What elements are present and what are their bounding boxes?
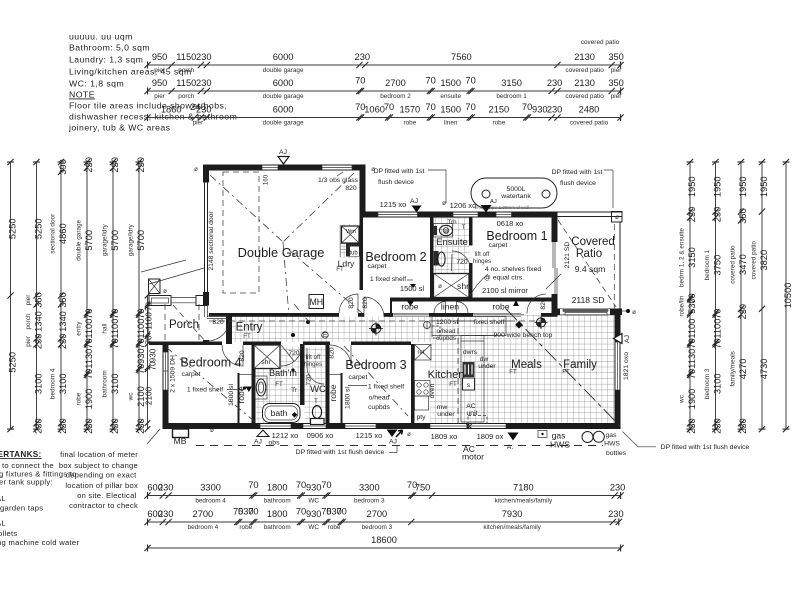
svg-text:AJ: AJ xyxy=(624,335,631,343)
wall: bed3 / kitchen xyxy=(411,344,415,423)
svg-text:NOTE: NOTE xyxy=(69,90,95,100)
door wc 720 xyxy=(307,348,324,384)
svg-text:MB: MB xyxy=(174,436,187,446)
svg-text:1800: 1800 xyxy=(267,483,288,493)
svg-text:70: 70 xyxy=(687,369,697,379)
svg-text:70: 70 xyxy=(110,338,120,348)
svg-text:Living/kitchen areas; 45 sqm: Living/kitchen areas; 45 sqm xyxy=(69,67,192,77)
svg-text:7180: 7180 xyxy=(513,483,534,493)
kitchen oven under xyxy=(415,396,429,410)
svg-text:2 x 1509 DH: 2 x 1509 DH xyxy=(170,355,177,393)
svg-text:DP fitted with 1st flush devic: DP fitted with 1st flush device xyxy=(661,444,750,451)
svg-text:3100: 3100 xyxy=(712,373,722,394)
svg-text:820: 820 xyxy=(345,185,357,192)
svg-text:820: 820 xyxy=(540,298,547,310)
svg-text:dwrs: dwrs xyxy=(463,349,478,356)
svg-text:1340: 1340 xyxy=(58,311,68,332)
wall: bottom xyxy=(163,423,621,429)
svg-text:Wm: Wm xyxy=(346,229,356,235)
svg-text:70: 70 xyxy=(248,507,258,517)
svg-text:3100: 3100 xyxy=(58,373,68,394)
svg-text:2148 sectional door: 2148 sectional door xyxy=(208,211,215,271)
svg-text:930: 930 xyxy=(136,348,146,364)
patio corner pier xyxy=(612,212,623,223)
door ensuite 720 xyxy=(452,251,471,271)
kitchen fridge space xyxy=(415,345,432,361)
svg-text:ø: ø xyxy=(615,214,619,221)
notes text block top-left xyxy=(68,32,237,133)
svg-text:3820: 3820 xyxy=(759,250,769,271)
svg-text:o/head: o/head xyxy=(369,395,390,402)
svg-text:5250: 5250 xyxy=(33,218,43,239)
svg-text:covered patio: covered patio xyxy=(570,119,609,126)
svg-text:2100 sl mirror: 2100 sl mirror xyxy=(482,286,528,295)
svg-text:ø: ø xyxy=(371,166,375,173)
svg-text:DP fitted with 1st: DP fitted with 1st xyxy=(552,169,603,176)
svg-text:double garage: double garage xyxy=(263,93,304,100)
svg-text:4730: 4730 xyxy=(759,359,769,380)
svg-text:4270: 4270 xyxy=(738,359,748,380)
svg-text:5700: 5700 xyxy=(84,230,94,251)
svg-text:70: 70 xyxy=(426,102,436,112)
wall: bath / wc xyxy=(300,344,305,405)
svg-text:0618 xo: 0618 xo xyxy=(497,219,524,228)
ensuite shower xyxy=(434,274,470,298)
svg-text:70: 70 xyxy=(84,369,94,379)
svg-text:covered patio: covered patio xyxy=(581,39,620,46)
robe slider slot bed2 xyxy=(393,314,429,317)
svg-text:o/head: o/head xyxy=(437,328,456,335)
wc toilet xyxy=(312,406,321,419)
svg-text:ø: ø xyxy=(163,288,167,295)
svg-text:fixed shelf: fixed shelf xyxy=(474,319,505,326)
svg-text:ø: ø xyxy=(632,309,636,316)
svg-text:bedroom 3: bedroom 3 xyxy=(704,368,711,399)
wall: bedroom 4 left xyxy=(163,344,169,429)
wall stub entry/bed4 xyxy=(226,317,232,345)
svg-text:pier: pier xyxy=(193,119,205,126)
svg-text:Bedroom 1: Bedroom 1 xyxy=(486,229,547,243)
svg-text:230: 230 xyxy=(58,334,68,350)
door bath 720 xyxy=(281,345,302,366)
wall: bed4 robe partition xyxy=(238,373,240,423)
svg-text:FT: FT xyxy=(509,369,517,376)
svg-text:ng machine cold water: ng machine cold water xyxy=(0,538,79,547)
svg-text:2700: 2700 xyxy=(367,509,388,519)
svg-text:930: 930 xyxy=(306,509,322,519)
svg-text:70: 70 xyxy=(712,309,722,319)
svg-text:230: 230 xyxy=(33,334,43,350)
svg-text:160: 160 xyxy=(263,174,270,185)
svg-text:ø: ø xyxy=(442,200,446,207)
svg-text:AL: AL xyxy=(0,494,6,503)
svg-text:double garage: double garage xyxy=(263,119,304,126)
bath tub xyxy=(263,404,301,423)
svg-text:Double Garage: Double Garage xyxy=(238,245,325,260)
svg-text:1130: 1130 xyxy=(687,349,697,369)
svg-text:18600: 18600 xyxy=(371,535,397,545)
wall: top wall over bedroom2/ensuite/bedroom1 xyxy=(366,212,558,218)
porch pier and beam xyxy=(149,296,171,306)
svg-text:robe: robe xyxy=(328,524,341,531)
kitchen bench top band xyxy=(432,317,506,336)
svg-text:DP fitted with 1st: DP fitted with 1st xyxy=(374,168,425,175)
dimension chain bottom row 1 xyxy=(144,480,625,504)
svg-text:820: 820 xyxy=(212,319,224,326)
svg-text:bottles: bottles xyxy=(606,450,627,457)
svg-text:AJ: AJ xyxy=(410,198,418,205)
svg-text:750: 750 xyxy=(415,483,431,493)
svg-text:230: 230 xyxy=(610,483,626,493)
misc dots xyxy=(291,333,295,337)
svg-text:A.: A. xyxy=(507,444,514,451)
wall: garage top xyxy=(203,165,366,171)
svg-text:1809 xo: 1809 xo xyxy=(431,432,458,441)
svg-text:1/3 obs glass: 1/3 obs glass xyxy=(318,177,359,184)
svg-text:5000L: 5000L xyxy=(507,186,526,193)
dimension chain left L3 xyxy=(50,159,68,434)
svg-text:joinery, tub & WC areas: joinery, tub & WC areas xyxy=(68,123,171,133)
porch corner pier with X xyxy=(149,279,161,294)
svg-text:3300: 3300 xyxy=(200,483,221,493)
sectional door dashed track xyxy=(223,172,259,293)
svg-text:230: 230 xyxy=(196,105,212,115)
svg-text:under: under xyxy=(478,363,496,370)
svg-text:3100: 3100 xyxy=(110,373,120,394)
svg-text:robe: robe xyxy=(239,524,252,531)
door bed3 820 xyxy=(330,345,351,366)
svg-text:70: 70 xyxy=(84,338,94,348)
svg-text:1200 sl: 1200 sl xyxy=(436,319,458,326)
svg-text:bedrm 1, 2 & ensuite: bedrm 1, 2 & ensuite xyxy=(679,228,686,287)
svg-text:porch: porch xyxy=(178,67,194,74)
svg-text:70: 70 xyxy=(136,364,146,374)
svg-text:70: 70 xyxy=(465,102,475,112)
svg-text:kitchen/meals/family: kitchen/meals/family xyxy=(495,497,553,504)
window 1212 xo obs bathroom xyxy=(260,424,291,428)
svg-text:carpet: carpet xyxy=(368,263,387,270)
svg-text:530: 530 xyxy=(687,298,697,314)
svg-text:Entry: Entry xyxy=(236,322,263,334)
svg-text:720: 720 xyxy=(306,374,313,386)
svg-text:WC: WC xyxy=(308,497,319,504)
svg-text:hinges: hinges xyxy=(304,361,322,368)
dimension chain bottom row 2 xyxy=(144,507,623,531)
svg-text:1500: 1500 xyxy=(440,78,461,88)
svg-text:contractor to check: contractor to check xyxy=(69,501,138,510)
window 160 in garage top wall xyxy=(262,166,278,170)
svg-text:covered patio: covered patio xyxy=(730,245,737,284)
svg-text:shr: shr xyxy=(457,281,469,291)
svg-text:box subject to change: box subject to change xyxy=(59,461,138,470)
bathroom vanity basin xyxy=(255,376,267,399)
svg-text:930: 930 xyxy=(532,105,548,115)
svg-text:robe: robe xyxy=(493,119,506,126)
svg-text:70: 70 xyxy=(337,507,347,517)
svg-text:robe: robe xyxy=(328,384,338,401)
svg-text:4860: 4860 xyxy=(58,223,68,244)
wall: bed2 / ensuite xyxy=(430,218,434,300)
porch roof hip line xyxy=(149,268,204,284)
svg-text:pty: pty xyxy=(416,414,426,421)
svg-text:930: 930 xyxy=(306,483,322,493)
svg-text:1821 oxo: 1821 oxo xyxy=(623,352,630,380)
svg-text:1950: 1950 xyxy=(712,176,722,197)
svg-text:garage/ldry: garage/ldry xyxy=(128,224,135,257)
svg-text:930: 930 xyxy=(149,348,158,362)
svg-text:230: 230 xyxy=(136,418,146,434)
svg-text:70: 70 xyxy=(687,338,697,348)
svg-text:T: T xyxy=(462,224,466,231)
svg-text:70: 70 xyxy=(522,102,532,112)
front door arc (entry) xyxy=(207,319,230,342)
svg-text:final location of meter: final location of meter xyxy=(60,450,138,459)
svg-text:covered patio: covered patio xyxy=(751,241,758,280)
svg-text:bedroom 4: bedroom 4 xyxy=(195,497,226,504)
wall: garage / bed2 xyxy=(360,218,364,291)
svg-text:1950: 1950 xyxy=(738,176,748,197)
svg-text:230: 230 xyxy=(712,418,722,434)
svg-text:obs: obs xyxy=(269,440,281,447)
svg-text:70: 70 xyxy=(712,338,722,348)
svg-text:Trh: Trh xyxy=(447,219,457,226)
svg-text:WATERTANKS:: WATERTANKS: xyxy=(0,450,42,459)
svg-text:820: 820 xyxy=(362,297,369,309)
svg-text:1340: 1340 xyxy=(33,311,43,332)
dimension chain left L7 inner xyxy=(145,293,158,432)
svg-text:1 fixed shelf: 1 fixed shelf xyxy=(187,387,223,394)
svg-text:1900: 1900 xyxy=(687,389,697,410)
svg-text:1100: 1100 xyxy=(110,319,120,339)
svg-text:depending on exact: depending on exact xyxy=(66,471,137,480)
5000L water tank xyxy=(471,178,557,208)
door bed4 820 xyxy=(222,345,243,366)
svg-text:Bathroom: 5,0 sqm: Bathroom: 5,0 sqm xyxy=(69,43,150,53)
svg-text:ø: ø xyxy=(407,431,411,438)
svg-text:2700: 2700 xyxy=(385,78,406,88)
svg-text:350: 350 xyxy=(58,292,68,308)
ceiling symbol hall xyxy=(369,322,383,336)
dimension chain right R2 xyxy=(704,159,722,434)
window 1809 xo xyxy=(430,424,467,428)
svg-text:3470: 3470 xyxy=(738,254,748,275)
dimension chain left L6 xyxy=(128,157,146,434)
svg-text:ø: ø xyxy=(210,427,214,434)
svg-text:covered patio: covered patio xyxy=(565,67,604,74)
svg-text:AC: AC xyxy=(466,403,476,410)
svg-text:6000: 6000 xyxy=(273,78,294,88)
svg-text:pier: pier xyxy=(25,294,32,306)
svg-text:Bedroom 4: Bedroom 4 xyxy=(180,356,241,370)
svg-text:1 fixed shelf: 1 fixed shelf xyxy=(368,384,404,391)
svg-text:flush device: flush device xyxy=(378,179,414,186)
bathroom tiled floor xyxy=(256,347,300,424)
svg-text:s: s xyxy=(467,382,471,389)
wall: entry left / front door jamb xyxy=(203,340,209,345)
roof ridge garage xyxy=(283,242,289,316)
svg-text:pier: pier xyxy=(154,67,166,74)
window 1215 xo bedroom 2 xyxy=(378,213,418,217)
svg-text:1215 xo: 1215 xo xyxy=(380,200,407,209)
svg-text:flush device: flush device xyxy=(560,180,596,187)
roof hip garage NW xyxy=(210,175,283,242)
roof diagonal bedroom 3 xyxy=(344,346,408,416)
svg-text:350: 350 xyxy=(608,78,624,88)
svg-text:carpet: carpet xyxy=(349,374,368,381)
svg-text:1809 ox: 1809 ox xyxy=(477,432,504,441)
porch left slab edge xyxy=(148,282,150,342)
svg-text:1500 sl: 1500 sl xyxy=(400,284,425,293)
svg-text:Laundry: 1,3 sqm: Laundry: 1,3 sqm xyxy=(69,55,143,65)
svg-text:WC: 1,8 sqm: WC: 1,8 sqm xyxy=(69,79,124,89)
svg-text:HWS: HWS xyxy=(604,441,620,448)
svg-text:230: 230 xyxy=(158,483,174,493)
dimension chain top row 3 xyxy=(144,102,623,126)
svg-text:E: E xyxy=(323,332,327,339)
svg-text:MH: MH xyxy=(309,297,323,307)
svg-text:9.4 sqm: 9.4 sqm xyxy=(575,264,606,274)
svg-text:pier: pier xyxy=(611,67,623,74)
roof dashed vertical kitchen xyxy=(457,318,459,424)
svg-text:1100: 1100 xyxy=(687,319,697,339)
svg-text:ensuite: ensuite xyxy=(440,93,461,100)
dimension chain right R5 xyxy=(783,159,793,432)
svg-text:720: 720 xyxy=(288,350,300,357)
dimension chain bottom row 3 xyxy=(144,535,623,551)
window 1206 xo ensuite xyxy=(453,213,478,217)
dimension chain left L5 xyxy=(102,157,120,434)
svg-text:er tank supply:: er tank supply: xyxy=(0,478,53,487)
wall: bedroom1 / patio with 2121 SD xyxy=(552,218,558,243)
svg-text:3750: 3750 xyxy=(712,255,722,276)
svg-text:oven: oven xyxy=(429,383,436,398)
door bedroom 2 820 xyxy=(364,297,384,317)
svg-text:1900: 1900 xyxy=(84,389,94,410)
svg-text:bedroom 4: bedroom 4 xyxy=(188,524,219,531)
svg-text:1800: 1800 xyxy=(267,509,288,519)
svg-text:1800 sl: 1800 sl xyxy=(345,387,352,409)
svg-text:Covered: Covered xyxy=(571,236,614,248)
svg-text:dishwasher recess, kitchen & b: dishwasher recess, kitchen & bathroom xyxy=(69,112,237,122)
svg-text:w: w xyxy=(443,228,449,235)
svg-text:1860: 1860 xyxy=(161,105,182,115)
svg-text:6000: 6000 xyxy=(273,52,294,62)
svg-text:bathroom: bathroom xyxy=(102,370,109,397)
svg-text:porch: porch xyxy=(25,313,32,329)
svg-text:1800 sl: 1800 sl xyxy=(228,384,235,406)
svg-text:carpet: carpet xyxy=(182,371,201,378)
mullion mark between 1809 windows xyxy=(466,424,472,429)
svg-text:bath: bath xyxy=(271,408,288,418)
svg-text:230: 230 xyxy=(196,52,212,62)
svg-text:230: 230 xyxy=(136,157,146,173)
svg-text:location of pillar box: location of pillar box xyxy=(65,481,138,490)
wall: robe/linen back (bed1 bottom) xyxy=(390,298,558,302)
roof hip garage SE xyxy=(289,250,362,313)
svg-text:230: 230 xyxy=(110,418,120,434)
roof diagonal bedroom 4 xyxy=(166,347,260,426)
svg-text:350: 350 xyxy=(33,292,43,308)
dimension chain left L1 xyxy=(7,159,17,432)
svg-text:230: 230 xyxy=(608,509,624,519)
svg-text:820: 820 xyxy=(329,347,336,359)
svg-text:mw: mw xyxy=(437,404,448,411)
svg-text:6000: 6000 xyxy=(273,105,294,115)
svg-text:bathroom: bathroom xyxy=(264,524,291,531)
svg-text:4 no. shelves fixed: 4 no. shelves fixed xyxy=(485,266,542,273)
entry and hall tiled floor xyxy=(232,317,432,343)
svg-text:230: 230 xyxy=(547,105,563,115)
svg-text:robe: robe xyxy=(492,302,509,312)
svg-text:230: 230 xyxy=(196,78,212,88)
svg-text:5700: 5700 xyxy=(136,230,146,251)
svg-text:lift off: lift off xyxy=(475,251,490,258)
svg-text:2130: 2130 xyxy=(574,78,595,88)
wall: family right xyxy=(615,315,621,429)
svg-text:hall: hall xyxy=(102,324,109,334)
ensuite tiled floor xyxy=(433,218,470,298)
svg-text:covered patio: covered patio xyxy=(565,93,604,100)
svg-text:family/meals: family/meals xyxy=(730,351,737,387)
svg-text:2100: 2100 xyxy=(145,386,154,405)
linen double doors xyxy=(434,302,468,314)
svg-text:wc: wc xyxy=(679,394,686,404)
svg-text:gas: gas xyxy=(606,432,618,439)
wall: patio bottom with 2118 SD xyxy=(552,309,623,316)
svg-text:robe/lin: robe/lin xyxy=(679,295,686,316)
svg-text:5250: 5250 xyxy=(7,352,17,373)
window 1/3 obs glass 820 in garage top wall xyxy=(322,166,352,170)
svg-text:1100: 1100 xyxy=(145,312,154,330)
svg-text:Kitchen: Kitchen xyxy=(428,369,465,381)
svg-text:bedroom 3: bedroom 3 xyxy=(354,497,385,504)
svg-text:bedroom 4: bedroom 4 xyxy=(50,368,57,399)
svg-text:under: under xyxy=(437,411,455,418)
ensuite toilet xyxy=(434,251,439,266)
svg-text:WC: WC xyxy=(308,524,319,531)
svg-text:3150: 3150 xyxy=(501,78,522,88)
svg-text:@ equal ctrs.: @ equal ctrs. xyxy=(484,275,524,282)
svg-text:820: 820 xyxy=(239,350,246,362)
wall: porch / bed4 top band xyxy=(149,342,222,346)
svg-text:kitchen/meals/family: kitchen/meals/family xyxy=(483,524,541,531)
svg-text:cupbds: cupbds xyxy=(368,404,391,411)
door bedroom 1 820 xyxy=(527,294,546,314)
svg-text:720: 720 xyxy=(456,259,468,266)
wall: bath / bed4robe xyxy=(252,344,256,423)
svg-text:T: T xyxy=(314,398,318,405)
svg-text:1950: 1950 xyxy=(687,176,697,197)
svg-text:70: 70 xyxy=(384,102,394,112)
dimension chain right R4 xyxy=(751,159,769,432)
svg-text:cupbds: cupbds xyxy=(436,335,456,342)
svg-text:AJ: AJ xyxy=(389,439,397,446)
window 1809 ox xyxy=(469,424,506,428)
wall: garage left with sectional door xyxy=(203,165,209,183)
svg-text:unit: unit xyxy=(467,410,478,417)
svg-text:1130: 1130 xyxy=(84,349,94,369)
door garage-hall 820 xyxy=(339,294,358,313)
svg-text:900 wide bench top: 900 wide bench top xyxy=(494,332,553,339)
kitchen cooktop xyxy=(415,381,431,397)
window 0618 xo bedroom 1 xyxy=(496,213,512,217)
svg-text:1150: 1150 xyxy=(176,78,196,88)
wall: laundry nook xyxy=(339,225,341,257)
svg-text:70: 70 xyxy=(426,76,436,86)
gas HWS xyxy=(538,431,547,438)
svg-text:350: 350 xyxy=(608,52,624,62)
svg-text:tub: tub xyxy=(349,251,358,257)
